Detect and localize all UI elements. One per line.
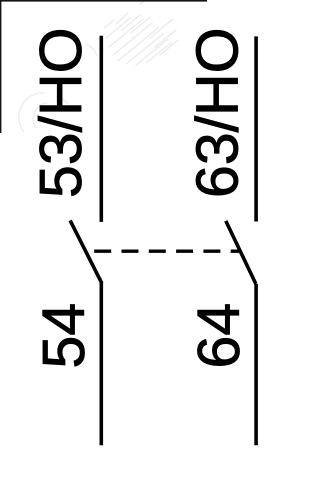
wire: terminal 54	[100, 283, 104, 445]
svg-text:64: 64	[186, 303, 252, 369]
svg-text:63/HO: 63/HO	[185, 27, 251, 198]
NO contact blade 63-64	[226, 221, 256, 284]
svg-text:53/HO: 53/HO	[28, 27, 94, 198]
wire: terminal 53	[100, 36, 104, 222]
wire: terminal 64	[254, 284, 258, 445]
NO contact blade 53-54	[70, 220, 102, 283]
svg-text:54: 54	[31, 303, 97, 369]
mechanical linkage (dashed)	[94, 250, 241, 253]
wire: terminal 63	[254, 36, 258, 221]
